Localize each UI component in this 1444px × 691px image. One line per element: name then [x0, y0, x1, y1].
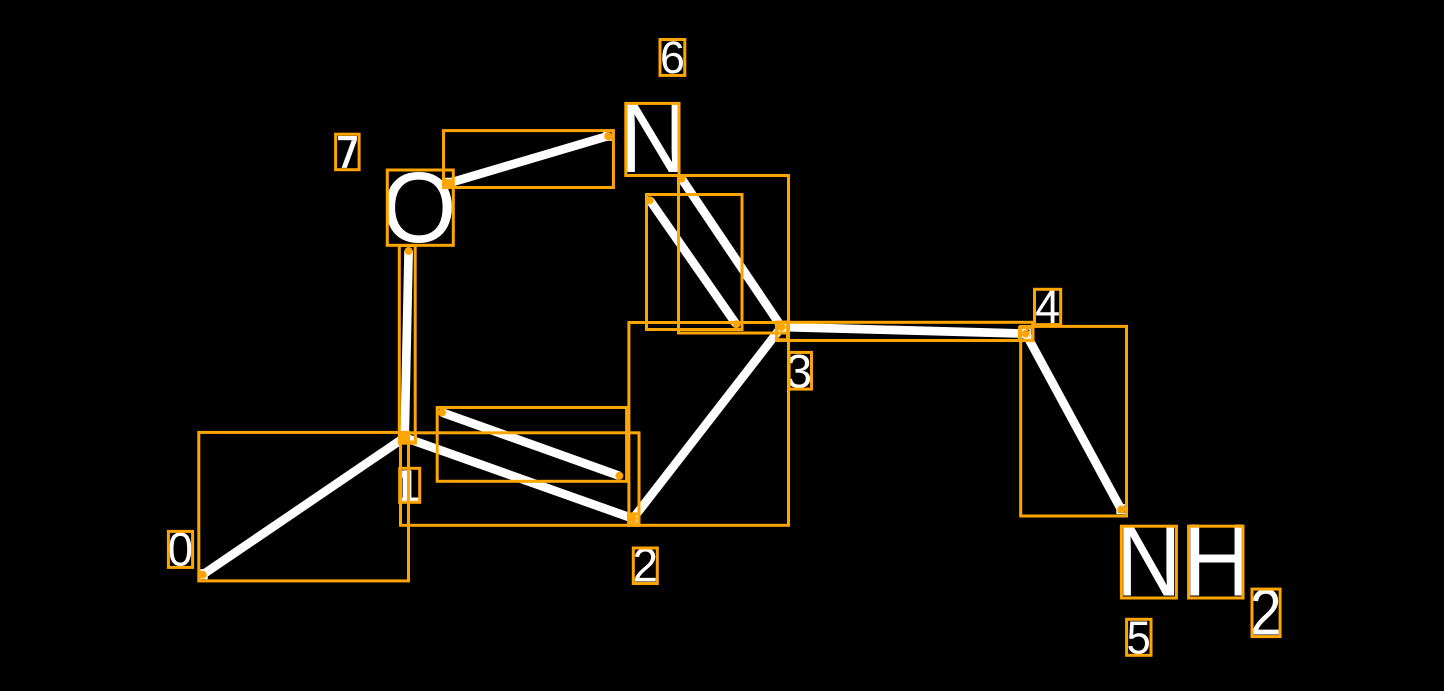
svg-text:H: H: [1182, 502, 1251, 617]
svg-text:N: N: [1116, 504, 1182, 617]
